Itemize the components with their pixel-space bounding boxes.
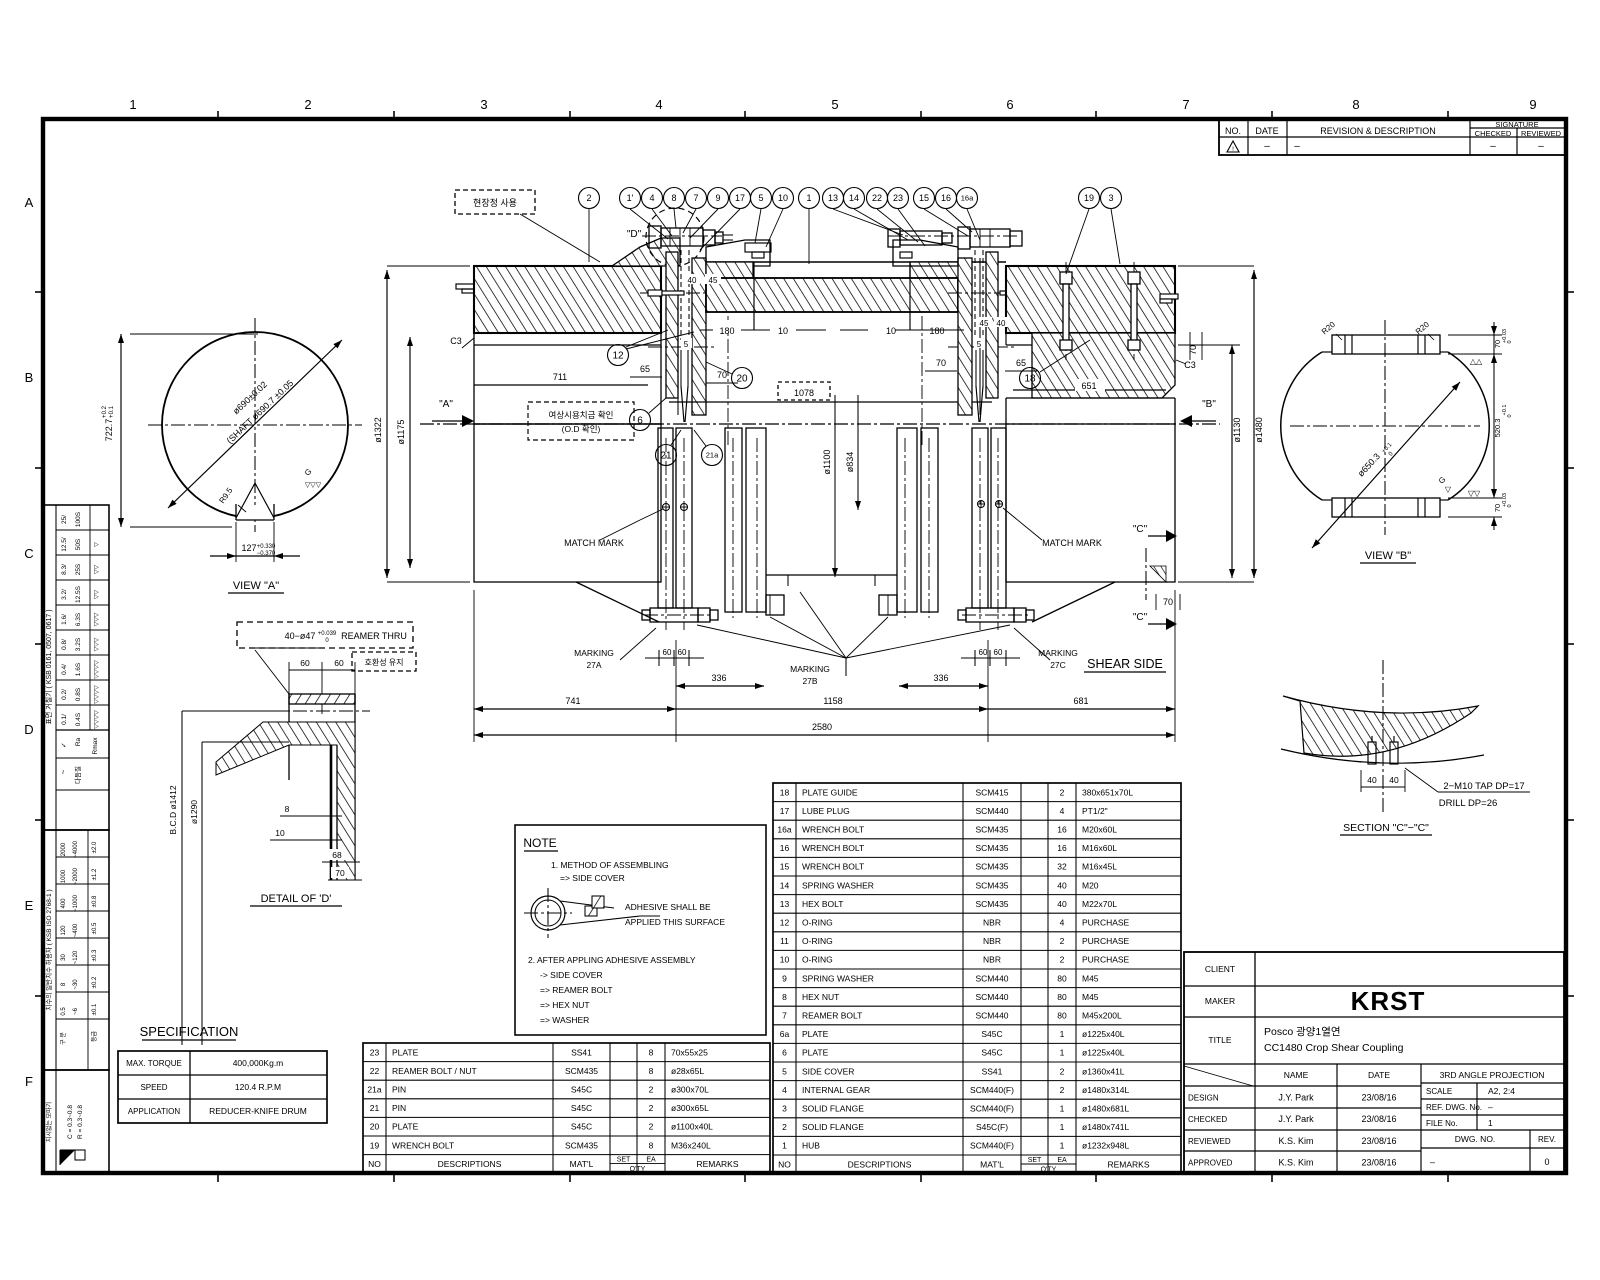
title text: [1264, 1026, 1404, 1054]
svg-text:1: 1: [1060, 1104, 1065, 1114]
svg-text:1: 1: [1060, 1048, 1065, 1058]
section C-C note: [1405, 768, 1530, 809]
svg-text:DATE: DATE: [1255, 126, 1278, 136]
svg-text:WRENCH BOLT: WRENCH BOLT: [802, 862, 864, 872]
dims 45 40 labels: [684, 274, 1008, 328]
svg-text:SECTION "C"−"C": SECTION "C"−"C": [1343, 822, 1429, 834]
svg-text:DESCRIPTIONS: DESCRIPTIONS: [438, 1159, 502, 1169]
svg-text:+0.1: +0.1: [1502, 405, 1508, 416]
view B right dims: [1448, 322, 1513, 530]
match mark symbols left: [564, 503, 688, 548]
dim 336 right: [899, 640, 988, 742]
svg-text:100S: 100S: [75, 511, 82, 527]
svg-text:8: 8: [285, 804, 290, 814]
svg-text:SCM415: SCM415: [975, 787, 1008, 797]
svg-text:120: 120: [61, 925, 67, 936]
svg-text:SCM440(F): SCM440(F): [970, 1104, 1014, 1114]
hub right hatched section: [1006, 266, 1175, 333]
svg-text:127: 127: [241, 543, 256, 553]
svg-text:SPEED: SPEED: [140, 1083, 167, 1092]
svg-text:16a: 16a: [777, 825, 791, 835]
svg-text:CC1480 Crop Shear Coupling: CC1480 Crop Shear Coupling: [1264, 1042, 1404, 1054]
svg-text:23: 23: [370, 1047, 380, 1057]
svg-text:3.2/: 3.2/: [61, 589, 68, 600]
svg-text:J.Y. Park: J.Y. Park: [1278, 1114, 1314, 1124]
svg-text:~1000: ~1000: [73, 894, 79, 912]
svg-text:"C": "C": [1133, 612, 1148, 623]
svg-text:10: 10: [275, 828, 285, 838]
svg-text:SPRING WASHER: SPRING WASHER: [802, 880, 874, 890]
svg-text:+0.039: +0.039: [318, 631, 337, 637]
svg-text:2: 2: [304, 97, 311, 112]
left flange bolt bottom: [642, 608, 718, 622]
svg-text:8.3/: 8.3/: [61, 564, 68, 575]
svg-text:PLATE GUIDE: PLATE GUIDE: [802, 787, 858, 797]
balloon 18 right: [1020, 340, 1091, 389]
svg-text:0: 0: [1507, 340, 1513, 343]
svg-text:CHECKED: CHECKED: [1475, 129, 1512, 138]
chamfer note table (left margin): [43, 1070, 109, 1174]
svg-text:다듬질: 다듬질: [73, 766, 82, 784]
svg-text:9: 9: [782, 973, 787, 983]
svg-text:0.8S: 0.8S: [75, 687, 82, 701]
svg-text:2: 2: [1060, 936, 1065, 946]
svg-text:C3: C3: [1184, 360, 1196, 370]
svg-text:O-RING: O-RING: [802, 918, 833, 928]
svg-text:REVIEWED: REVIEWED: [1521, 129, 1562, 138]
svg-text:19: 19: [1084, 193, 1094, 203]
svg-text:Posco 광양1열연: Posco 광양1열연: [1264, 1026, 1341, 1038]
svg-text:7: 7: [782, 1011, 787, 1021]
svg-text:등급: 등급: [91, 1031, 98, 1043]
svg-text:"A": "A": [439, 399, 453, 410]
view A R9.5 label: [217, 486, 246, 512]
svg-text:336: 336: [933, 673, 948, 683]
hub right body: [1006, 333, 1175, 622]
svg-text:~: ~: [59, 769, 68, 774]
svg-text:2: 2: [1060, 1066, 1065, 1076]
svg-text:4: 4: [1060, 918, 1065, 928]
dim 336 left: [676, 640, 764, 742]
section C-C title: [1340, 822, 1432, 835]
svg-text:ø1225x40L: ø1225x40L: [1082, 1029, 1125, 1039]
internal gear hatched top band: [706, 262, 1006, 330]
svg-text:±0.2: ±0.2: [92, 976, 98, 988]
title block frame: [1184, 952, 1564, 1173]
svg-text:1. METHOD OF ASSEMBLING: 1. METHOD OF ASSEMBLING: [551, 860, 669, 870]
svg-text:PURCHASE: PURCHASE: [1082, 918, 1130, 928]
svg-text:~400: ~400: [73, 923, 79, 937]
view B triangle marks: [1437, 357, 1483, 498]
shear side label: [1084, 657, 1166, 672]
svg-text:4: 4: [649, 193, 654, 203]
svg-text:치수의 일반치수 허용차 ( KSB ISO 2768-1: 치수의 일반치수 허용차 ( KSB ISO 2768-1 ): [44, 889, 53, 1010]
svg-text:3: 3: [782, 1104, 787, 1114]
svg-text:1: 1: [806, 193, 811, 203]
svg-text:S45C: S45C: [981, 1029, 1002, 1039]
surface roughness table (left margin): [43, 505, 109, 830]
svg-text:F: F: [25, 1074, 33, 1089]
svg-text:KRST: KRST: [1351, 986, 1426, 1016]
svg-text:10: 10: [778, 193, 788, 203]
svg-text:±1.2: ±1.2: [92, 868, 98, 880]
marking 27B leaders: [697, 592, 1010, 686]
svg-text:±2.0: ±2.0: [92, 841, 98, 853]
svg-text:SCM435: SCM435: [975, 843, 1008, 853]
svg-text:(O.D 확인): (O.D 확인): [562, 424, 601, 434]
svg-text:25/: 25/: [61, 515, 68, 524]
svg-text:PIN: PIN: [392, 1103, 406, 1113]
svg-text:1: 1: [1060, 1122, 1065, 1132]
svg-text:PLATE: PLATE: [392, 1047, 419, 1057]
svg-text:SCALE: SCALE: [1426, 1087, 1452, 1096]
svg-text:20: 20: [736, 374, 748, 385]
view A keyway: [236, 483, 274, 520]
svg-text:ø1322: ø1322: [373, 417, 383, 443]
svg-text:PLATE: PLATE: [802, 1029, 829, 1039]
svg-text:2: 2: [586, 193, 591, 203]
svg-text:0: 0: [1507, 414, 1513, 417]
svg-text:REMARKS: REMARKS: [696, 1159, 738, 1169]
svg-text:5: 5: [831, 97, 838, 112]
svg-text:ø1480x741L: ø1480x741L: [1082, 1122, 1130, 1132]
svg-text:MAT'L: MAT'L: [570, 1159, 594, 1169]
svg-text:681: 681: [1073, 696, 1088, 706]
svg-text:1.6/: 1.6/: [61, 614, 68, 625]
svg-text:ø1100: ø1100: [822, 450, 832, 475]
svg-text:40: 40: [688, 276, 697, 285]
detail D BCD dims: [168, 711, 289, 1045]
svg-text:REMARKS: REMARKS: [1107, 1159, 1149, 1169]
svg-text:S45C: S45C: [571, 1122, 592, 1132]
svg-text:+0.1: +0.1: [109, 405, 115, 418]
svg-text:EA: EA: [1057, 1157, 1067, 1164]
svg-text:PLATE: PLATE: [392, 1122, 419, 1132]
svg-text:~30: ~30: [73, 979, 79, 990]
svg-text:=> REAMER BOLT: => REAMER BOLT: [540, 985, 613, 995]
right flange bolt bottom: [958, 608, 1034, 622]
svg-text:M45x200L: M45x200L: [1082, 1011, 1122, 1021]
svg-text:SPECIFICATION: SPECIFICATION: [140, 1024, 239, 1039]
svg-text:3.2S: 3.2S: [75, 637, 82, 651]
general tolerance table (left margin): [43, 830, 109, 1070]
parts list left: [363, 1043, 770, 1173]
svg-text:Q'TY: Q'TY: [1041, 1167, 1057, 1174]
svg-text:80: 80: [1057, 992, 1067, 1002]
svg-text:2: 2: [649, 1103, 654, 1113]
svg-text:16: 16: [780, 843, 790, 853]
dim 10/180 right: [840, 320, 964, 336]
right flange column hatched (part 6a): [958, 258, 972, 415]
svg-text:APPROVED: APPROVED: [1188, 1159, 1233, 1168]
svg-text:PT1/2": PT1/2": [1082, 806, 1108, 816]
bolt left col mid: [640, 290, 716, 296]
match mark symbols right: [977, 500, 1102, 548]
gear mid lines: [648, 316, 1032, 445]
svg-text:520.3: 520.3: [1493, 419, 1502, 438]
svg-text:NBR: NBR: [983, 955, 1001, 965]
flange D hatched slope: [612, 238, 680, 266]
svg-text:70: 70: [1163, 597, 1173, 607]
svg-text:PURCHASE: PURCHASE: [1082, 936, 1130, 946]
svg-text:22: 22: [872, 193, 882, 203]
svg-text:336: 336: [711, 673, 726, 683]
svg-text:2000: 2000: [61, 842, 67, 856]
svg-text:1000: 1000: [61, 869, 67, 883]
left flange column hatched (part 20): [666, 252, 678, 398]
note box: [515, 825, 766, 1035]
balloon 6: [630, 398, 667, 431]
svg-text:7: 7: [693, 193, 698, 203]
svg-text:SCM435: SCM435: [975, 899, 1008, 909]
svg-text:DETAIL OF 'D': DETAIL OF 'D': [261, 893, 332, 905]
svg-text:~2000: ~2000: [73, 867, 79, 885]
dim 70 65 right: [925, 338, 1037, 371]
svg-text:5: 5: [684, 340, 689, 349]
svg-text:PURCHASE: PURCHASE: [1082, 955, 1130, 965]
svg-text:70: 70: [717, 370, 727, 380]
svg-text:DESCRIPTIONS: DESCRIPTIONS: [848, 1159, 912, 1169]
svg-text:12.5/: 12.5/: [61, 537, 68, 552]
svg-text:REVIEWED: REVIEWED: [1188, 1137, 1231, 1146]
svg-text:1: 1: [1488, 1118, 1493, 1128]
svg-text:180: 180: [929, 326, 944, 336]
svg-text:▽▽▽: ▽▽▽: [94, 612, 100, 626]
svg-text:REAMER BOLT / NUT: REAMER BOLT / NUT: [392, 1066, 477, 1076]
svg-text:60: 60: [300, 658, 310, 668]
svg-text:=> WASHER: => WASHER: [540, 1015, 589, 1025]
svg-text:16: 16: [941, 193, 951, 203]
svg-text:2: 2: [1060, 1085, 1065, 1095]
svg-text:0: 0: [1507, 504, 1513, 507]
balloon 12 with leader: [608, 330, 695, 366]
svg-text:±0.3: ±0.3: [92, 949, 98, 961]
svg-text:20: 20: [370, 1122, 380, 1132]
svg-text:13: 13: [780, 899, 790, 909]
svg-text:-> SIDE COVER: -> SIDE COVER: [540, 970, 603, 980]
svg-text:±0.1: ±0.1: [92, 1003, 98, 1015]
svg-text:2: 2: [649, 1122, 654, 1132]
svg-text:REAMER BOLT: REAMER BOLT: [802, 1011, 862, 1021]
svg-text:=> SIDE COVER: => SIDE COVER: [560, 873, 625, 883]
svg-text:REDUCER-KNIFE DRUM: REDUCER-KNIFE DRUM: [209, 1106, 307, 1116]
svg-text:2580: 2580: [812, 722, 832, 732]
svg-text:1158: 1158: [823, 696, 842, 706]
svg-text:21a: 21a: [706, 451, 719, 460]
svg-text:1: 1: [1060, 1141, 1065, 1151]
svg-text:6a: 6a: [780, 1029, 790, 1039]
svg-text:+0.330: +0.330: [257, 544, 276, 550]
view B bottom keyway band: [1322, 498, 1448, 517]
revision table: [1219, 119, 1565, 155]
svg-text:0.8/: 0.8/: [61, 639, 68, 650]
svg-text:68: 68: [332, 850, 342, 860]
svg-text:3RD ANGLE PROJECTION: 3RD ANGLE PROJECTION: [1440, 1070, 1545, 1080]
svg-text:40−ø47: 40−ø47: [285, 631, 316, 641]
svg-text:–: –: [1490, 141, 1496, 152]
left inner plates below: [725, 428, 766, 612]
wrench bolts 19: [1060, 262, 1140, 360]
svg-text:DRILL DP=26: DRILL DP=26: [1439, 798, 1498, 809]
svg-text:▽▽▽▽: ▽▽▽▽: [94, 710, 100, 729]
svg-text:ø1480x681L: ø1480x681L: [1082, 1104, 1130, 1114]
svg-text:K.S. Kim: K.S. Kim: [1278, 1158, 1313, 1168]
detail D body: [216, 694, 370, 880]
view A surface mark G: [303, 467, 322, 489]
svg-text:SS41: SS41: [571, 1047, 592, 1057]
svg-text:R = 0.3~0.8: R = 0.3~0.8: [77, 1105, 84, 1139]
svg-text:8: 8: [649, 1047, 654, 1057]
svg-text:0.4S: 0.4S: [75, 712, 82, 726]
svg-text:HEX NUT: HEX NUT: [802, 992, 839, 1002]
svg-text:NBR: NBR: [983, 918, 1001, 928]
svg-text:SCM440: SCM440: [975, 973, 1008, 983]
svg-text:11: 11: [780, 936, 789, 946]
main centerline: [420, 423, 1220, 425]
svg-text:LUBE PLUG: LUBE PLUG: [802, 806, 850, 816]
svg-text:A: A: [25, 195, 34, 210]
svg-text:!: !: [1232, 146, 1234, 153]
svg-text:6.3S: 6.3S: [75, 612, 82, 626]
dimension dia1480 right: [1178, 266, 1264, 582]
svg-text:▽: ▽: [94, 542, 100, 547]
marking 27A: [574, 628, 656, 670]
dimension dia1175 (left): [396, 337, 413, 568]
svg-text:PIN: PIN: [392, 1085, 406, 1095]
svg-text:1: 1: [1060, 1029, 1065, 1039]
svg-text:▽▽▽: ▽▽▽: [305, 482, 322, 489]
svg-text:Q'TY: Q'TY: [630, 1166, 646, 1173]
svg-text:1: 1: [782, 1141, 787, 1151]
svg-text:400: 400: [61, 898, 67, 909]
svg-text:0.5: 0.5: [61, 1007, 67, 1016]
svg-text:Rmax: Rmax: [92, 737, 99, 755]
svg-text:ø28x65L: ø28x65L: [671, 1066, 704, 1076]
section C-C hatched segment: [1281, 660, 1484, 812]
svg-text:180: 180: [719, 326, 734, 336]
view A keyway dimension 127: [210, 522, 300, 562]
svg-text:SCM440(F): SCM440(F): [970, 1141, 1014, 1151]
svg-text:–: –: [1488, 1102, 1493, 1112]
svg-text:12: 12: [612, 351, 624, 362]
svg-text:S45C: S45C: [571, 1103, 592, 1113]
svg-text:NOTE: NOTE: [523, 836, 556, 850]
svg-text:C: C: [24, 546, 33, 561]
svg-text:23/08/16: 23/08/16: [1361, 1136, 1396, 1146]
view B R20 labels: [1320, 320, 1434, 340]
svg-text:~120: ~120: [73, 950, 79, 964]
svg-text:40: 40: [1057, 880, 1067, 890]
svg-text:WRENCH BOLT: WRENCH BOLT: [802, 825, 864, 835]
svg-text:6: 6: [782, 1048, 787, 1058]
svg-text:0.1/: 0.1/: [61, 714, 68, 725]
svg-text:380x651x70L: 380x651x70L: [1082, 787, 1133, 797]
svg-text:MAT'L: MAT'L: [980, 1159, 1004, 1169]
svg-text:SHEAR SIDE: SHEAR SIDE: [1087, 657, 1163, 671]
svg-text:현장정 사용: 현장정 사용: [473, 198, 517, 208]
svg-text:9: 9: [1529, 97, 1536, 112]
svg-text:722.7: 722.7: [104, 419, 114, 442]
site-use note cloud: [455, 190, 600, 262]
svg-text:SOLID FLANGE: SOLID FLANGE: [802, 1104, 864, 1114]
svg-text:10: 10: [778, 326, 788, 336]
svg-text:70: 70: [936, 358, 946, 368]
svg-text:40: 40: [1367, 775, 1377, 785]
svg-text:CLIENT: CLIENT: [1205, 964, 1235, 974]
svg-text:0.2/: 0.2/: [61, 689, 68, 700]
svg-text:SCM435: SCM435: [975, 862, 1008, 872]
svg-text:6: 6: [637, 416, 643, 427]
svg-text:60: 60: [334, 658, 344, 668]
specification title: [140, 1024, 239, 1040]
svg-text:S45C: S45C: [981, 1048, 1002, 1058]
svg-text:16: 16: [1057, 825, 1067, 835]
svg-text:711: 711: [553, 372, 567, 382]
svg-text:M45: M45: [1082, 992, 1099, 1002]
svg-text:M16x45L: M16x45L: [1082, 862, 1117, 872]
svg-text:VIEW "B": VIEW "B": [1365, 550, 1411, 562]
svg-text:ø300x65L: ø300x65L: [671, 1103, 709, 1113]
dim 2580: [474, 722, 1175, 738]
svg-text:2: 2: [782, 1122, 787, 1132]
svg-text:4: 4: [782, 1085, 787, 1095]
dimension dia1322 (left): [373, 266, 470, 582]
hidden bolt holes right: [888, 236, 1020, 340]
svg-text:SCM440: SCM440: [975, 992, 1008, 1002]
svg-text:ø1480: ø1480: [1254, 417, 1264, 443]
svg-text:40: 40: [1389, 775, 1399, 785]
svg-text:ø834: ø834: [845, 452, 855, 473]
svg-text:M20x60L: M20x60L: [1082, 825, 1117, 835]
svg-text:B: B: [25, 370, 34, 385]
detail D title: [250, 893, 342, 906]
svg-text:REV.: REV.: [1538, 1135, 1556, 1144]
svg-text:MARKING: MARKING: [574, 648, 614, 658]
right inner bolt: [879, 595, 897, 615]
svg-text:1078: 1078: [794, 388, 814, 398]
svg-text:MAKER: MAKER: [1205, 996, 1235, 1006]
bolt left cover: [806, 292, 848, 298]
dim 651: [1013, 379, 1166, 391]
bolt 7-8-9 assembly (D area): [649, 226, 733, 248]
svg-text:70: 70: [1493, 504, 1502, 512]
dim 70 boxed right top: [1188, 332, 1202, 360]
svg-text:M20: M20: [1082, 880, 1099, 890]
svg-text:25S: 25S: [75, 563, 82, 575]
section arrow B: [1180, 399, 1216, 427]
svg-text:MATCH MARK: MATCH MARK: [564, 538, 624, 548]
svg-text:TITLE: TITLE: [1208, 1035, 1231, 1045]
svg-text:651: 651: [1081, 381, 1096, 391]
dim 711: [474, 372, 648, 385]
svg-text:ø300x70L: ø300x70L: [671, 1085, 709, 1095]
svg-text:표면 거칠기 ( KSB 0161, 0507, 0617: 표면 거칠기 ( KSB 0161, 0507, 0617 ): [44, 609, 53, 724]
svg-text:ø1232x948L: ø1232x948L: [1082, 1141, 1130, 1151]
svg-text:SET: SET: [617, 1157, 631, 1164]
svg-text:HUB: HUB: [802, 1141, 820, 1151]
hub left body: [474, 333, 661, 622]
svg-text:SCM435: SCM435: [565, 1140, 598, 1150]
svg-text:3: 3: [480, 97, 487, 112]
svg-text:J.Y. Park: J.Y. Park: [1278, 1093, 1314, 1103]
svg-text:16a: 16a: [961, 194, 974, 203]
svg-text:SCM435: SCM435: [975, 825, 1008, 835]
svg-text:SOLID FLANGE: SOLID FLANGE: [802, 1122, 864, 1132]
revision row 1: [1227, 141, 1544, 153]
svg-text:APPLIED THIS SURFACE: APPLIED THIS SURFACE: [625, 917, 725, 927]
svg-text:–: –: [1294, 141, 1300, 152]
svg-text:60: 60: [678, 648, 687, 657]
